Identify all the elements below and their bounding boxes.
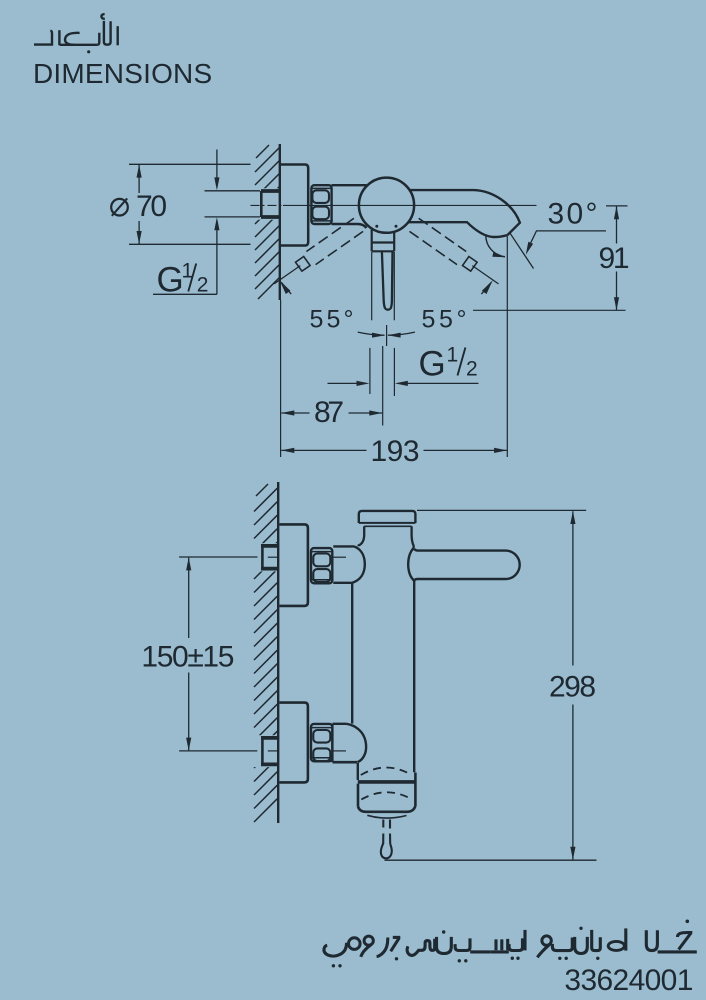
bottom inlet centerline dashes [268,750,279,752]
svg-text:G: G [157,261,184,300]
inlet extension lines to the left [205,190,261,192]
word grohe (jrwhy) [324,943,347,956]
svg-text:298: 298 [549,671,596,704]
svg-text:33624001: 33624001 [564,964,693,997]
hidden rim dashed arc upper [361,767,410,775]
centerline stub for 91 dim [606,205,628,207]
bottom inlet: port tail in wall [261,736,279,740]
dimension 91 [616,207,618,244]
escutcheon flange (upper view) [280,165,308,246]
dimension O70 extension lines [129,163,251,165]
right lever axis extension [472,266,498,284]
title arabic ALABAAD (hand-drawn strokes) [34,14,118,45]
svg-text:2: 2 [466,358,478,381]
outlet below elbow [357,763,359,780]
label G 1/2 left [157,260,209,300]
bottom hex nut [311,724,332,761]
bottom escutcheon [280,703,308,783]
mask behind inlet port [253,188,279,219]
30 deg thin face extension line [510,233,534,269]
hidden dashed arc lower [361,792,410,799]
svg-text:55°: 55° [310,306,354,334]
diameter symbol of O70 label [111,198,128,215]
top inlet: port tail in wall [261,544,279,548]
dimension 87 [281,412,309,414]
flow skirt arc [367,815,406,818]
svg-text:91: 91 [599,242,630,275]
cap neck and body top [359,526,365,546]
svg-text:150±15: 150±15 [141,641,234,674]
arabic dots [332,920,689,968]
svg-text:2: 2 [197,274,209,297]
svg-text:G: G [419,345,446,384]
193 right extension (from spout tip) [506,236,508,457]
wall face line (lower) [277,482,279,823]
aerator ring top thick band [358,780,416,784]
svg-text:DIMENSIONS: DIMENSIONS [33,58,212,89]
top inlet centerline dashes [268,556,279,558]
body right edge with waist at top inlet [408,548,414,581]
55deg far arc stubs with arrows [282,283,292,295]
dashed lever swung left 55deg [306,218,363,264]
dots on cartridge [375,225,378,228]
extension line below wall for 87/193 [280,300,282,457]
55deg angle arcs center stubs with arrows [358,332,385,335]
svg-text:70: 70 [136,190,167,223]
svg-text:55°: 55° [422,306,467,334]
lever handle (pointing down) [371,229,373,251]
G1/2 lever width dimension [369,348,371,394]
lever (lower view) [414,549,520,581]
cup bottom [358,806,415,812]
dashed lever swung right 55deg [410,218,467,264]
30 deg leader [531,231,606,243]
lever edge extension lines [371,252,373,320]
wall face line (upper) [279,144,281,300]
svg-text:1: 1 [447,344,459,367]
label G 1/2 lever [419,344,478,384]
dimension G1/2 (left) lines with arrows [216,150,218,179]
left lever axis extension [274,266,300,284]
svg-text:87: 87 [314,396,344,429]
threaded inlet tail in wall G1/2 [261,189,279,193]
top cap [359,511,416,523]
top hex nut [311,548,332,583]
word banyu [537,944,550,957]
bottom union elbow dome [331,724,333,762]
mask behind lower inlet ports [253,543,279,571]
svg-text:193: 193 [371,435,420,468]
aerator cup sides [357,784,360,807]
top escutcheon [280,524,308,606]
dimension 298 [417,509,586,511]
body left edge between inlets [351,583,353,723]
water drop [382,820,384,828]
right lever tip rectangle [463,257,478,272]
top union connector [333,545,354,547]
title arabic dot of ba [87,50,90,53]
left lever tip rectangle [296,257,311,272]
centerline of faucet [251,204,284,206]
dimension 150+-15 [179,556,257,558]
dimension O70 line with arrows [138,165,140,193]
wall hatching (upper) [255,145,280,299]
word khallat [608,941,624,950]
hex nut [311,185,331,224]
wall hatching (lower) [254,484,277,822]
dimension 193 [281,449,366,451]
body tube between nut and cartridge [332,184,367,186]
svg-text:30°: 30° [548,198,598,231]
word essence (aysyns) [407,939,435,956]
cartridge circle [359,178,414,233]
spout [410,190,520,235]
30 deg angle arc with arrow [486,235,505,256]
